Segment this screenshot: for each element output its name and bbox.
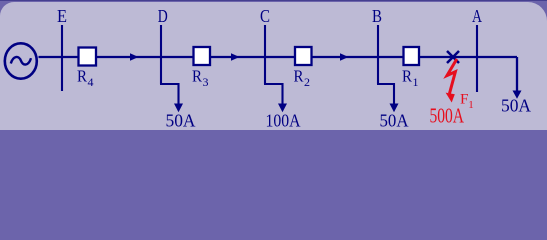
bus B (377, 25, 379, 84)
generator source (5, 43, 37, 78)
wire: right end down to load arrow (516, 57, 518, 91)
svg-text:R: R (192, 67, 203, 86)
svg-text:R: R (402, 67, 413, 86)
svg-text:500A: 500A (430, 103, 465, 127)
load arrow at C (278, 104, 287, 113)
purple page background (0, 0, 547, 1)
svg-text:50A: 50A (380, 111, 409, 131)
wire: bus B load tap (377, 84, 394, 104)
wire: main feeder line (39, 56, 518, 58)
bus A (476, 25, 478, 92)
bus D (160, 25, 162, 84)
wire: bus C load tap (264, 84, 283, 104)
recloser R3 (194, 47, 211, 65)
load arrow at B (390, 104, 399, 113)
svg-text:A: A (472, 6, 482, 26)
svg-text:D: D (158, 6, 168, 26)
recloser R1 (404, 47, 420, 65)
fault F1 lightning bolt (447, 59, 457, 94)
bus E (61, 25, 63, 91)
wire arrowhead 1 (130, 53, 139, 60)
load arrow at right end (513, 91, 522, 99)
svg-text:B: B (372, 6, 382, 26)
lavender panel (0, 2, 547, 130)
svg-text:3: 3 (203, 75, 209, 89)
bus C (264, 25, 266, 84)
svg-text:50A: 50A (501, 96, 531, 116)
svg-text:2: 2 (304, 75, 310, 89)
wire: bus D load tap (160, 84, 179, 104)
wire arrowhead 3 (340, 53, 349, 60)
svg-text:4: 4 (88, 75, 94, 89)
fault X marker (447, 51, 459, 63)
svg-text:R: R (294, 67, 305, 86)
svg-text:1: 1 (468, 99, 474, 111)
svg-text:50A: 50A (166, 111, 196, 131)
svg-text:C: C (260, 6, 270, 26)
load arrow at D (174, 104, 183, 113)
recloser R4 (79, 48, 97, 66)
generator sine symbol (11, 57, 31, 65)
svg-text:R: R (77, 67, 88, 86)
svg-text:1: 1 (413, 75, 419, 89)
recloser R2 (295, 47, 312, 65)
wire arrowhead 2 (231, 53, 240, 60)
svg-text:E: E (57, 6, 67, 26)
svg-text:100A: 100A (266, 111, 301, 131)
